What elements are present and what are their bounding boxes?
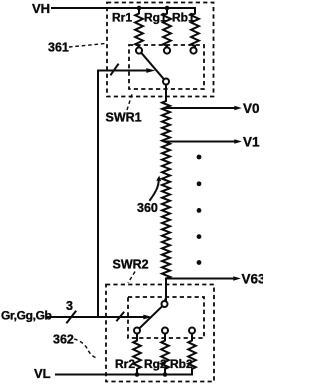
bus slash bottom xyxy=(117,313,124,321)
bus slash top xyxy=(111,65,118,75)
switch SWR2 dashed box xyxy=(128,297,204,338)
tap V1 wire xyxy=(166,141,235,143)
svg-text:Gr,Gg,Gb: Gr,Gg,Gb xyxy=(1,308,52,322)
SWR1 contact r xyxy=(136,47,142,53)
svg-text:V0: V0 xyxy=(243,101,260,116)
tap V0 wire xyxy=(166,107,235,109)
wire control bus horizontal xyxy=(48,316,144,318)
leader SWR2 xyxy=(128,272,135,284)
tap V63 wire xyxy=(166,278,233,280)
wire VH rail xyxy=(52,7,195,9)
switch SWR1 dashed box xyxy=(129,45,204,89)
arrowhead control SWR1 xyxy=(146,68,155,73)
resistor Rb2 xyxy=(188,334,196,375)
SWR1 arm xyxy=(141,53,164,80)
SWR2 contact b xyxy=(189,328,195,334)
svg-text:SWR2: SWR2 xyxy=(113,258,149,272)
svg-text:Rg2: Rg2 xyxy=(144,357,167,371)
ellipsis dots xyxy=(197,155,202,265)
svg-text:Rr2: Rr2 xyxy=(115,357,135,371)
svg-text:Rb2: Rb2 xyxy=(170,357,193,371)
leader 362 xyxy=(74,339,97,358)
resistor Rg1 xyxy=(163,8,171,48)
resistor Rr1 xyxy=(135,8,143,48)
SWR1 contact b xyxy=(190,47,196,53)
leader arrow 360 xyxy=(150,179,159,200)
svg-text:Rr1: Rr1 xyxy=(112,11,132,25)
svg-text:VL: VL xyxy=(34,366,51,381)
leader 361 xyxy=(69,44,105,48)
resistor Rb1 xyxy=(191,8,199,48)
svg-text:362: 362 xyxy=(53,333,74,347)
junction dot Rr2/rail xyxy=(135,372,140,377)
SWR2 contact r xyxy=(134,328,140,334)
SWR1 contact g xyxy=(164,47,170,53)
bus slash 3 xyxy=(67,312,76,323)
dashed box 361 xyxy=(107,3,214,97)
resistor Rr2 xyxy=(133,334,141,375)
junction dot Rg2/rail xyxy=(163,372,168,377)
wire ladder to SWR2 xyxy=(165,279,166,302)
SWR2 contact g xyxy=(162,328,168,334)
wire control bus vertical xyxy=(98,71,147,318)
wire VL rail xyxy=(56,374,192,376)
svg-text:360: 360 xyxy=(137,201,158,215)
svg-text:361: 361 xyxy=(48,41,69,55)
leader SWR1 xyxy=(127,94,132,110)
svg-text:SWR1: SWR1 xyxy=(106,111,142,125)
resistor Rg2 xyxy=(161,334,169,375)
resistor ladder 360 xyxy=(162,85,170,302)
junction dot Rr1/rail xyxy=(137,6,142,11)
svg-text:Rb1: Rb1 xyxy=(172,11,195,25)
svg-text:3: 3 xyxy=(66,299,73,313)
SWR2 arm xyxy=(139,306,162,328)
dashed box 362 xyxy=(106,285,214,382)
SWR2 common pole circle xyxy=(162,301,168,307)
SWR1 common pole circle xyxy=(163,79,169,85)
svg-text:V1: V1 xyxy=(243,134,260,149)
svg-text:Rg1: Rg1 xyxy=(144,11,167,25)
arrowhead control SWR2 xyxy=(143,315,152,320)
junction dot Rg1/rail xyxy=(165,6,170,11)
svg-text:V63: V63 xyxy=(242,271,264,286)
svg-text:VH: VH xyxy=(32,1,50,16)
